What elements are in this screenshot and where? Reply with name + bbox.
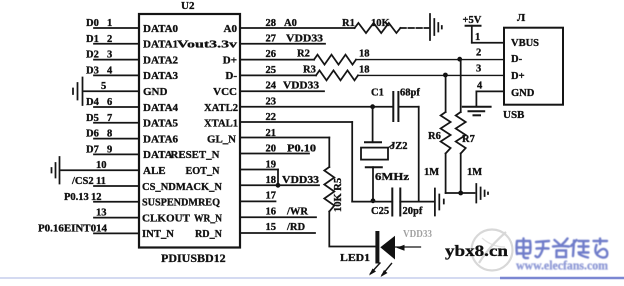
svg-text:CS_NDMACK_N: CS_NDMACK_N bbox=[142, 181, 222, 193]
svg-text:LED1: LED1 bbox=[340, 253, 370, 264]
node crystal value 6MHz bbox=[375, 172, 409, 183]
node IC internal labels bbox=[142, 23, 238, 240]
svg-text:18: 18 bbox=[359, 49, 370, 60]
wire pin19 drop to pin18 bbox=[277, 170, 279, 186]
wire pin8 D6 bbox=[94, 138, 139, 140]
svg-text:R2: R2 bbox=[297, 49, 310, 60]
svg-text:3: 3 bbox=[107, 50, 112, 61]
resistor R2 bbox=[314, 55, 356, 65]
svg-text:18: 18 bbox=[266, 175, 277, 186]
svg-text:GND: GND bbox=[511, 88, 535, 99]
svg-text:ybx8.cn: ybx8.cn bbox=[445, 243, 508, 260]
node crystal top junction bbox=[370, 104, 375, 109]
wire pin4 D3 bbox=[94, 74, 139, 76]
svg-text:D-: D- bbox=[225, 70, 237, 82]
node PDIUSBD12 label bbox=[161, 251, 226, 265]
wire C1 ground drop bbox=[418, 107, 420, 202]
wire pin28 A0 bbox=[240, 27, 355, 29]
svg-text:1: 1 bbox=[475, 32, 480, 43]
svg-text:R7: R7 bbox=[462, 134, 475, 145]
svg-text:D2: D2 bbox=[86, 50, 99, 61]
svg-text:Vout3.3v: Vout3.3v bbox=[177, 39, 238, 51]
svg-text:SUSPENDMREQ: SUSPENDMREQ bbox=[142, 197, 220, 209]
node JZ2 label bbox=[390, 141, 408, 152]
svg-text:4: 4 bbox=[477, 80, 483, 91]
svg-text:/RD: /RD bbox=[286, 222, 306, 233]
svg-text:15: 15 bbox=[266, 222, 277, 233]
svg-text:P0.13: P0.13 bbox=[64, 192, 89, 203]
wire pin18 VDD33 bbox=[240, 184, 319, 186]
resistor R5 bbox=[324, 167, 334, 212]
node R7 value 1M bbox=[467, 167, 482, 178]
svg-text:/WR: /WR bbox=[286, 206, 308, 217]
node crystal bottom junction bbox=[371, 198, 376, 203]
wire XTAL1 drop bbox=[351, 122, 353, 202]
node C25 label bbox=[371, 206, 389, 217]
svg-text:68pf: 68pf bbox=[400, 88, 420, 99]
svg-text:18: 18 bbox=[359, 64, 370, 75]
wire R1 to ground bbox=[400, 27, 428, 29]
node C1 value 68pf bbox=[400, 88, 420, 99]
svg-text:DATA3: DATA3 bbox=[143, 70, 179, 82]
svg-text:DATA1: DATA1 bbox=[143, 39, 178, 51]
node D+ junction bbox=[443, 73, 448, 78]
node R1 value 10K bbox=[371, 18, 391, 29]
wire pin10 bbox=[61, 169, 139, 171]
svg-text:EOT_N: EOT_N bbox=[186, 165, 220, 177]
node R2 label bbox=[297, 49, 310, 60]
wire D- net R2 to USB pin2 bbox=[356, 59, 504, 61]
svg-text:17: 17 bbox=[266, 191, 277, 202]
svg-text:Л: Л bbox=[517, 12, 526, 24]
svg-text:3: 3 bbox=[476, 63, 481, 74]
node left pin labels bbox=[38, 18, 113, 234]
svg-text:www.elecfans.com: www.elecfans.com bbox=[516, 259, 609, 273]
node watermark logo circle bbox=[472, 230, 513, 271]
ground at pin5 bbox=[73, 78, 83, 106]
wire pin3 D2 bbox=[94, 59, 139, 61]
svg-text:2: 2 bbox=[107, 34, 112, 45]
op-amp U1 IC body PDIUSBD12 bbox=[139, 14, 240, 248]
node D- junction bbox=[457, 57, 462, 62]
svg-text:D3: D3 bbox=[86, 65, 99, 76]
svg-text:D+: D+ bbox=[223, 54, 237, 66]
wire pin25 to R3 bbox=[240, 74, 316, 76]
svg-text:6MHz: 6MHz bbox=[375, 172, 409, 183]
svg-text:C1: C1 bbox=[371, 88, 384, 99]
wire pin19 bbox=[240, 169, 278, 171]
svg-text:1M: 1M bbox=[424, 167, 439, 178]
svg-text:C25: C25 bbox=[371, 206, 389, 217]
LED LED1 bbox=[377, 233, 395, 262]
wire pin16 WR bbox=[240, 216, 316, 218]
resistor R1 bbox=[355, 23, 401, 33]
wire D+ net R3 to USB pin3 bbox=[358, 74, 504, 76]
svg-text:10K: 10K bbox=[371, 18, 391, 29]
wire pin23 XATL2 to C1 bbox=[240, 106, 393, 108]
wire pin21 GL_N bbox=[240, 137, 329, 139]
svg-text:XATL2: XATL2 bbox=[204, 102, 238, 114]
wire crystal stem bottom bbox=[372, 167, 374, 201]
resistor R7 bbox=[456, 59, 466, 193]
svg-text:VDD33: VDD33 bbox=[286, 34, 323, 45]
node right pin numbers and net labels bbox=[266, 18, 324, 233]
wire pin20 P0.10 bbox=[240, 153, 309, 155]
wire GND drop bbox=[475, 91, 477, 106]
wire GL_N drop to R5 bbox=[328, 138, 330, 168]
capacitor C25 bbox=[392, 189, 400, 216]
svg-text:DATA5: DATA5 bbox=[143, 118, 179, 130]
wire pin22 XTAL1 bbox=[240, 121, 352, 123]
wire LED anode to VDD33 bbox=[395, 245, 421, 251]
svg-text:27: 27 bbox=[266, 34, 277, 45]
wire pin11 CS bbox=[94, 185, 139, 187]
svg-text:RD_N: RD_N bbox=[195, 228, 222, 240]
svg-text:P0.16EINT014: P0.16EINT014 bbox=[38, 223, 108, 234]
svg-text:A0: A0 bbox=[224, 23, 238, 35]
svg-text:VDD33: VDD33 bbox=[403, 229, 432, 240]
node USB pin labels bbox=[475, 32, 539, 99]
connector J1 USB bbox=[504, 28, 563, 105]
node R6 value 1M bbox=[424, 167, 439, 178]
node pin18 junction bbox=[276, 183, 281, 188]
svg-text:1: 1 bbox=[107, 18, 112, 29]
resistor R6 bbox=[441, 75, 451, 193]
node watermark www.elecfans.com bbox=[516, 259, 609, 273]
wire pin7 D5 bbox=[94, 122, 139, 124]
svg-text:VDD33: VDD33 bbox=[282, 175, 319, 186]
node C25 value 20pf bbox=[403, 206, 423, 217]
wire pin15 RD bbox=[240, 232, 315, 234]
node R7 label bbox=[462, 134, 475, 145]
svg-text:DATA6: DATA6 bbox=[143, 133, 179, 145]
svg-text:RESET_N: RESET_N bbox=[171, 149, 220, 161]
wire pin1 D0 bbox=[94, 27, 139, 29]
wire R5 to LED bbox=[329, 212, 375, 247]
wire R6 R7 bottoms bbox=[446, 192, 475, 194]
svg-text:GL_N: GL_N bbox=[207, 133, 236, 145]
node watermark ybx8.cn bbox=[445, 243, 508, 260]
svg-text:D+: D+ bbox=[511, 71, 525, 82]
ground at pin10 bbox=[52, 157, 60, 184]
svg-text:USB: USB bbox=[503, 109, 525, 121]
svg-text:DATA2: DATA2 bbox=[143, 54, 179, 66]
svg-text:7: 7 bbox=[107, 113, 112, 124]
node +5V supply bbox=[463, 15, 482, 43]
wire USB pin4 GND bbox=[476, 90, 504, 92]
node R6 label bbox=[428, 131, 441, 142]
node J1 label bbox=[517, 12, 526, 24]
wire +5V to VBUS bbox=[472, 42, 504, 44]
wire pin6 D4 bbox=[94, 106, 139, 108]
wire bottom XTAL1 run bbox=[352, 201, 392, 203]
svg-text:DATA: DATA bbox=[143, 149, 173, 161]
node C1 label bbox=[371, 88, 384, 99]
node R3 value 18 bbox=[359, 64, 370, 75]
svg-text:/CS2: /CS2 bbox=[71, 176, 94, 187]
svg-text:D0: D0 bbox=[86, 18, 99, 29]
wire pin12 bbox=[94, 201, 139, 203]
svg-text:26: 26 bbox=[266, 49, 277, 60]
ground at USB bbox=[463, 107, 491, 116]
svg-text:8: 8 bbox=[107, 129, 112, 140]
wire pin9 D7 bbox=[94, 153, 139, 155]
node LED1 label bbox=[340, 253, 370, 264]
svg-text:WR_N: WR_N bbox=[194, 212, 222, 224]
svg-text:16: 16 bbox=[266, 206, 277, 217]
svg-text:D6: D6 bbox=[86, 129, 99, 140]
node R5 label rotated 10K R5 bbox=[333, 178, 344, 212]
node R3 label bbox=[303, 64, 316, 75]
svg-text:D7: D7 bbox=[86, 144, 99, 155]
svg-text:D5: D5 bbox=[86, 113, 99, 124]
svg-text:D-: D- bbox=[511, 54, 523, 65]
wire C25 to ground bbox=[400, 201, 433, 203]
svg-text:R1: R1 bbox=[342, 18, 355, 29]
wire pin13 bbox=[94, 217, 139, 219]
svg-text:INT_N: INT_N bbox=[142, 228, 174, 240]
node R6R7 junction bbox=[458, 191, 463, 196]
node watermark chinese glyphs bbox=[517, 239, 608, 259]
wire pin5 GND bbox=[84, 90, 139, 92]
svg-text:+5V: +5V bbox=[463, 15, 482, 26]
wire crystal stem top bbox=[372, 107, 374, 143]
svg-text:9: 9 bbox=[107, 144, 112, 155]
svg-text:2: 2 bbox=[476, 48, 481, 59]
ground at R6R7 bbox=[476, 184, 488, 203]
svg-text:U2: U2 bbox=[181, 0, 195, 12]
wire pin2 D1 bbox=[94, 43, 139, 45]
svg-text:20pf: 20pf bbox=[403, 206, 423, 217]
svg-text:5: 5 bbox=[101, 81, 106, 92]
svg-text:6: 6 bbox=[107, 97, 112, 108]
svg-text:4: 4 bbox=[107, 65, 113, 76]
svg-text:R6: R6 bbox=[428, 131, 441, 142]
wire watermark underline bbox=[0, 277, 500, 279]
svg-text:GND: GND bbox=[143, 86, 168, 98]
svg-text:CLKOUT: CLKOUT bbox=[142, 212, 191, 224]
svg-text:VDD33: VDD33 bbox=[283, 81, 319, 92]
svg-text:JZ2: JZ2 bbox=[390, 141, 408, 152]
capacitor C1 bbox=[393, 92, 398, 121]
svg-text:1M: 1M bbox=[467, 167, 482, 178]
svg-text:11: 11 bbox=[96, 176, 106, 187]
svg-text:24: 24 bbox=[266, 81, 277, 92]
node faded VDD33 label bbox=[403, 229, 432, 240]
resistor R3 bbox=[316, 70, 358, 80]
svg-text:13: 13 bbox=[96, 208, 107, 219]
wire C1 right to vertical bbox=[398, 106, 418, 108]
wire pin27 VDD33 bbox=[240, 43, 325, 45]
wire pin17 bbox=[240, 200, 276, 202]
svg-text:PDIUSBD12: PDIUSBD12 bbox=[161, 251, 226, 265]
svg-text:25: 25 bbox=[266, 65, 277, 76]
node R2 value 18 bbox=[359, 49, 370, 60]
svg-text:D4: D4 bbox=[86, 97, 100, 108]
svg-text:VBUS: VBUS bbox=[511, 38, 539, 49]
svg-text:12: 12 bbox=[91, 192, 102, 203]
svg-text:D1: D1 bbox=[86, 34, 99, 45]
svg-text:DATA4: DATA4 bbox=[143, 102, 179, 114]
svg-text:10K R5: 10K R5 bbox=[333, 178, 344, 212]
ground at R1 bbox=[430, 14, 442, 40]
svg-text:10: 10 bbox=[96, 160, 107, 171]
node R1 label bbox=[342, 18, 355, 29]
svg-text:DATA0: DATA0 bbox=[143, 23, 179, 35]
crystal JZ2 bbox=[361, 142, 394, 167]
ground at C25 bbox=[435, 189, 444, 216]
svg-text:XTAL1: XTAL1 bbox=[204, 118, 238, 130]
svg-text:ALE: ALE bbox=[143, 165, 166, 177]
wire pin26 to R2 bbox=[240, 59, 314, 61]
svg-text:R3: R3 bbox=[303, 64, 316, 75]
svg-text:VCC: VCC bbox=[213, 86, 237, 98]
svg-text:23: 23 bbox=[266, 96, 277, 107]
node U2 label bbox=[181, 0, 195, 12]
wire pin24 VDD33 bbox=[240, 90, 324, 92]
wire pin14 bbox=[94, 232, 139, 234]
node USB label bbox=[503, 109, 525, 121]
LED emission arrows bbox=[369, 263, 392, 277]
